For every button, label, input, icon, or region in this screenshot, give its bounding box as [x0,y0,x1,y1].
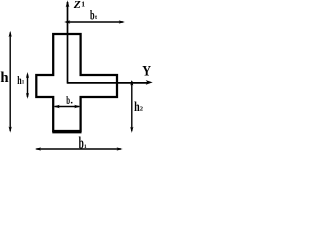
svg-text:b: b [66,95,70,107]
dimension line b (web width) [55,106,80,108]
dimension line b1 (bottom, flange width) [36,148,121,150]
svg-text:Z: Z [73,0,82,11]
b left arrowhead [54,105,60,108]
b_t left arrowhead [64,20,70,23]
h1 top arrowhead [26,72,29,78]
dimension line h2 (right, below Y axis) [131,81,133,131]
dimension line h1 (left flange depth) [27,75,29,98]
cross-shaped section outline [36,34,117,131]
svg-text:1: 1 [84,144,87,150]
dimension line b_t (top) [66,21,123,23]
h1 bottom arrowhead [26,93,29,99]
axis Y arrowhead [146,80,153,85]
b1 right arrowhead [117,147,123,150]
h2 bottom arrowhead [130,127,133,133]
svg-text:b: b [90,9,95,24]
b_t right arrowhead [119,20,125,23]
svg-text:1: 1 [81,0,85,9]
axis Z1 line [67,2,69,84]
svg-text:h: h [0,70,8,86]
dimension line h (far left, overall depth) [9,33,11,132]
web top edge [53,33,82,35]
svg-text:Y: Y [142,62,151,79]
h2 top arrowhead [130,80,133,86]
b1 left arrowhead [35,147,41,150]
svg-text:1: 1 [22,80,25,86]
b right arrowhead [74,105,80,108]
h bottom arrowhead [9,127,12,133]
h top arrowhead [9,31,12,37]
axis Z1 arrowhead [66,0,70,7]
svg-text:2: 2 [140,105,143,112]
web bottom edge [52,131,81,133]
axis Y line [67,82,147,84]
